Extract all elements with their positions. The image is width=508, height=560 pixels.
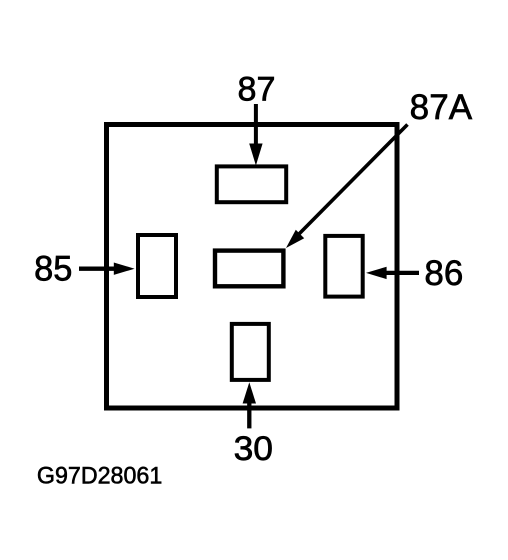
relay outline box — [107, 125, 398, 409]
svg-text:87A: 87A — [410, 88, 473, 127]
svg-text:30: 30 — [234, 430, 273, 468]
arrow to 30 — [243, 382, 256, 428]
terminal 87 rectangle — [217, 166, 286, 202]
terminal 30 rectangle — [232, 324, 269, 380]
arrow to 86 — [366, 267, 419, 279]
svg-text:G97D28061: G97D28061 — [37, 463, 162, 490]
svg-text:85: 85 — [34, 248, 72, 288]
terminal 87A rectangle — [215, 251, 283, 287]
svg-text:87: 87 — [238, 71, 276, 109]
arrow to 85 — [79, 263, 135, 275]
terminal 86 rectangle — [325, 236, 362, 297]
terminal 85 rectangle — [138, 235, 176, 297]
arrow to 87A — [286, 125, 408, 249]
svg-text:86: 86 — [424, 253, 463, 293]
arrow to 87 — [249, 104, 262, 166]
